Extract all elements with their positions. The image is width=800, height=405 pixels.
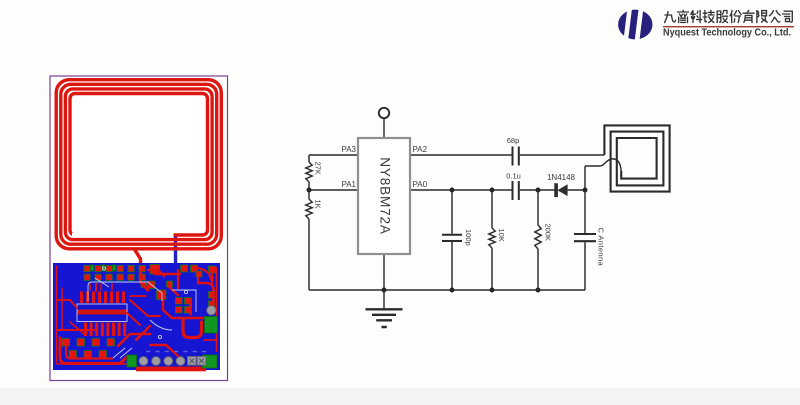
wire VDD to IC <box>383 118 385 138</box>
PCB board (blue) <box>53 263 220 370</box>
PCB coil exit trace <box>134 249 141 274</box>
capacitor 0.1u <box>513 181 519 200</box>
resistor 10K <box>489 228 495 248</box>
PCB top pad rows <box>84 265 216 281</box>
wire PA1 to left rail <box>309 189 358 191</box>
svg-text:0.1u: 0.1u <box>506 172 521 181</box>
pin label PA1 <box>341 180 356 189</box>
wire 10K to rail <box>491 248 493 290</box>
svg-text:PA3: PA3 <box>341 145 356 154</box>
wire left rail top <box>308 155 310 162</box>
wire PA2 to C68p <box>410 154 512 156</box>
PCB connector pads (gray circles) <box>139 357 206 366</box>
PCB antenna coil (red spiral) <box>56 80 221 249</box>
ground symbol <box>366 309 403 327</box>
wire 100p branch <box>451 190 453 234</box>
Nyquest logo mark <box>618 7 652 42</box>
wire left rail bottom <box>308 219 310 290</box>
wire 100p to rail <box>451 242 453 290</box>
wire C-Antenna branch <box>584 190 586 233</box>
svg-text:68p: 68p <box>507 136 520 145</box>
wire C68p to antenna <box>520 154 605 156</box>
pin label PA3 <box>341 145 356 154</box>
label 1K <box>314 200 323 209</box>
VDD terminal circle <box>379 108 389 118</box>
junction dots <box>307 188 588 293</box>
capacitor 100p <box>442 235 462 241</box>
PCB mid red pads <box>141 271 215 313</box>
svg-text:100p: 100p <box>464 229 473 246</box>
PCB bottom red bar <box>136 367 206 372</box>
svg-text:PA1: PA1 <box>341 180 356 189</box>
PCB blue trace from coil to board <box>174 234 177 266</box>
label 10K <box>497 229 506 242</box>
svg-text:PA0: PA0 <box>413 180 428 189</box>
ground stem <box>383 254 385 309</box>
pin label PA2 <box>413 145 428 154</box>
capacitor 68p <box>513 147 519 166</box>
wire PA3 to left rail <box>309 154 358 156</box>
label 27K <box>314 162 323 175</box>
wire 200K to rail <box>537 249 539 290</box>
label 1N4148 <box>547 173 576 182</box>
svg-text:C Antenna: C Antenna <box>597 228 606 267</box>
wire antenna inner jump <box>585 159 621 171</box>
op IC U1 NY8BM72A <box>358 138 410 254</box>
svg-text:Nyquest Technology Co., Ltd.: Nyquest Technology Co., Ltd. <box>663 28 791 39</box>
PCB image frame <box>50 76 228 381</box>
svg-text:NY8BM72A: NY8BM72A <box>378 157 393 235</box>
svg-text:200K: 200K <box>544 224 553 242</box>
label 200K <box>544 224 553 242</box>
PCB board red border traces <box>57 266 217 365</box>
pin label PA0 <box>413 180 428 189</box>
wire C-Antenna to rail <box>584 242 586 290</box>
capacitor C-Antenna <box>574 234 596 241</box>
antenna coil L1 (schematic spiral) <box>604 125 669 191</box>
PCB white silkscreen <box>88 267 196 358</box>
wire bottom rail <box>309 289 585 291</box>
wire 27K to node <box>308 182 310 199</box>
PCB red traces <box>57 268 216 364</box>
company name Chinese text <box>665 10 793 22</box>
wire 200K branch <box>537 190 539 225</box>
svg-text:1N4148: 1N4148 <box>547 173 576 182</box>
resistor 27K <box>306 162 312 182</box>
resistor 200K <box>535 225 541 249</box>
PCB gray circle on right <box>207 306 216 315</box>
wire antenna riser <box>584 166 586 190</box>
svg-text:10K: 10K <box>497 229 506 242</box>
label 100p <box>464 229 473 246</box>
resistor 1K <box>306 199 312 219</box>
wire PA0 row <box>410 189 512 191</box>
PCB left bottom pad cluster <box>62 339 115 359</box>
label C-Antenna <box>597 228 606 267</box>
wire 10K branch <box>491 190 493 228</box>
svg-text:PA2: PA2 <box>413 145 428 154</box>
PCB green connectors <box>91 265 218 368</box>
red underline <box>663 26 794 27</box>
PCB IC footprint <box>77 292 127 337</box>
wire diode to node <box>568 189 585 191</box>
label 68p <box>507 136 520 145</box>
svg-text:27K: 27K <box>314 162 323 175</box>
company name English text <box>663 28 791 39</box>
svg-text:1K: 1K <box>314 200 323 209</box>
label 0.1u <box>506 172 521 181</box>
wire 0.1u to diode <box>520 189 555 191</box>
diode D1 1N4148 <box>555 184 568 196</box>
